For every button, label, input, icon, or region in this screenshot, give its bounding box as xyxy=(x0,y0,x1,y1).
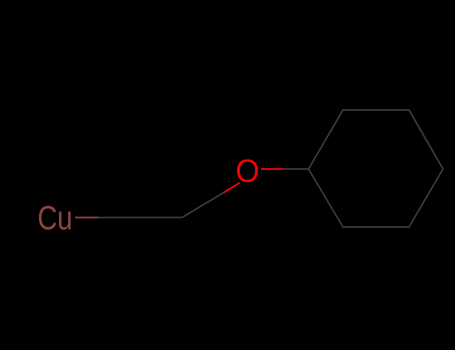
svg-text:Cu: Cu xyxy=(38,200,73,238)
wire: chain horizontal bond (C1 to CH2 bend) xyxy=(98,217,182,219)
wire: O-phenyl bond, carbon half xyxy=(283,168,309,170)
wire: O-phenyl bond, oxygen red half xyxy=(261,168,283,170)
ring: six-membered ring hexagon xyxy=(309,110,444,227)
svg-text:O: O xyxy=(236,153,260,189)
wire: CH2-O diagonal bond, carbon half xyxy=(182,193,223,218)
wire: Cu-C bond, copper-colored half xyxy=(75,217,98,219)
wire: CH2-O diagonal bond, oxygen red half xyxy=(223,183,240,194)
